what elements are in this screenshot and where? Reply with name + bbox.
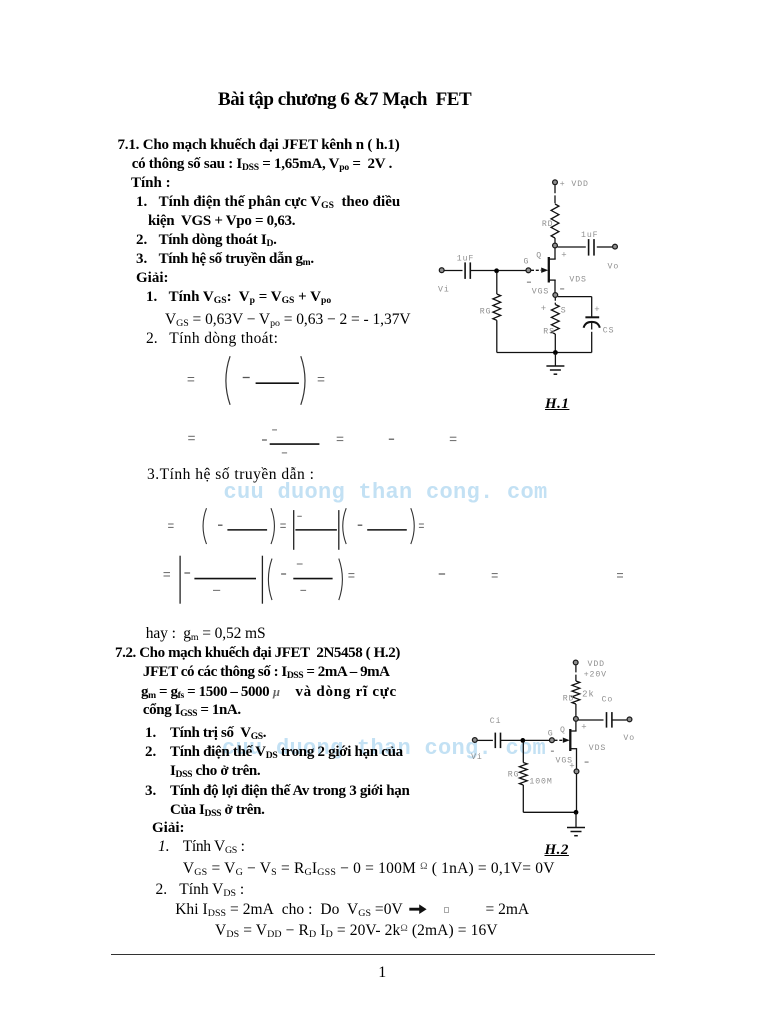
capacitor 1uF output H1 xyxy=(581,231,598,256)
label VDS H2 xyxy=(589,744,606,753)
bottom wire H1 xyxy=(497,352,592,354)
watermark 1 xyxy=(224,482,548,504)
svg-text:VGS: VGS xyxy=(532,288,549,297)
svg-text:RD: RD xyxy=(563,695,575,704)
svg-text:+ VDD: + VDD xyxy=(560,180,589,189)
watermark 2 xyxy=(222,738,546,760)
wire Co to Vo H2 xyxy=(612,719,627,721)
wire RD to drain node xyxy=(554,238,556,243)
svg-text:VDD: VDD xyxy=(588,660,605,669)
svg-text:Co: Co xyxy=(602,696,614,705)
caption H.1 xyxy=(545,397,569,412)
svg-text:RG: RG xyxy=(508,771,520,780)
capacitor CS H1 (polarized) xyxy=(584,305,615,352)
svg-text:S: S xyxy=(561,307,567,316)
svg-text:2k: 2k xyxy=(582,690,595,700)
equation gm row 1 xyxy=(168,508,424,550)
label VDD +20V H2 xyxy=(584,660,607,680)
minus below gate H1 xyxy=(527,281,531,283)
paragraph 7.1 xyxy=(118,138,400,153)
wire VDD to RD xyxy=(554,185,556,204)
wire source node to CS xyxy=(558,297,592,317)
label +VDD H1 xyxy=(560,180,589,189)
resistor RS H1 xyxy=(541,298,567,353)
wire VDD to RD H2 xyxy=(575,665,577,681)
empty box glyph xyxy=(444,907,449,913)
svg-text:VDS: VDS xyxy=(589,744,606,753)
junction node input H2 xyxy=(520,738,525,743)
equation gm row 2 xyxy=(164,556,624,604)
source node H1 xyxy=(553,293,558,298)
capacitor Co H2 xyxy=(602,696,614,728)
wire Vi to Ci xyxy=(477,739,493,741)
svg-text:Q: Q xyxy=(536,252,542,261)
plus sign drain H1 xyxy=(561,251,567,261)
svg-text:Ci: Ci xyxy=(490,716,502,726)
svg-text:+: + xyxy=(541,304,547,314)
bottom junction dot H2 xyxy=(574,810,579,815)
svg-text:CS: CS xyxy=(603,327,615,336)
wire junction to gate xyxy=(499,270,526,272)
wire Ci to junction H2 xyxy=(501,739,521,741)
page number xyxy=(378,965,386,981)
transistor Q H1 (JFET) xyxy=(524,248,556,293)
svg-text:G: G xyxy=(548,729,554,738)
Vo terminal H2 xyxy=(623,717,635,743)
svg-text:1uF: 1uF xyxy=(457,255,474,264)
wire input cap to junction xyxy=(470,270,494,272)
wire drain node to Co xyxy=(578,719,603,721)
label VGS H1 xyxy=(532,288,549,297)
VDD terminal H1 xyxy=(553,180,558,185)
minus below gate H2 xyxy=(551,750,554,752)
resistor RD H2 xyxy=(563,681,595,704)
svg-text:1uF: 1uF xyxy=(581,231,598,240)
resistor RG H1 xyxy=(480,272,501,353)
svg-text:Vi: Vi xyxy=(438,285,450,295)
plus near source H2 xyxy=(569,762,575,772)
wire junction to gate H2 xyxy=(525,739,550,741)
transistor Q H2 (JFET) xyxy=(548,721,577,769)
equation ID row 1 xyxy=(188,356,325,405)
minus right of source H2 xyxy=(585,761,589,763)
gate terminal H2 xyxy=(550,738,555,743)
resistor RD H1 xyxy=(542,204,559,238)
minus right of source H1 xyxy=(560,288,564,290)
svg-text:VDS: VDS xyxy=(569,276,586,285)
svg-text:+: + xyxy=(561,251,567,261)
plus sign drain H2 xyxy=(581,723,587,733)
label VGS H2 xyxy=(556,757,573,766)
svg-text:Vo: Vo xyxy=(623,734,635,743)
input terminal Vi H1 xyxy=(438,268,450,295)
bottom wire H2 xyxy=(523,811,576,813)
svg-text:+: + xyxy=(581,723,587,733)
drain node H1 xyxy=(553,243,558,248)
paragraph 7.2 xyxy=(115,646,400,661)
capacitor 1uF input H1 xyxy=(457,255,474,279)
label VDS H1 xyxy=(569,276,586,285)
bottom junction dot H1 xyxy=(553,350,558,355)
svg-text:RS: RS xyxy=(543,328,555,337)
svg-text:+: + xyxy=(594,305,600,315)
capacitor Ci H2 xyxy=(490,716,502,748)
svg-text:100M: 100M xyxy=(529,778,552,787)
wire output cap to Vo xyxy=(597,246,613,248)
drain node H2 xyxy=(574,717,579,722)
Vo terminal H1 xyxy=(608,244,620,271)
gate terminal H1 xyxy=(526,268,531,273)
source node H2 xyxy=(574,769,579,774)
resistor RG H2 xyxy=(508,742,553,812)
wire RD to drain node H2 xyxy=(575,704,577,716)
title xyxy=(218,90,471,109)
footer rule xyxy=(111,954,655,955)
VDD terminal H2 xyxy=(573,660,578,665)
svg-text:RD: RD xyxy=(542,220,554,229)
svg-text:G: G xyxy=(524,258,530,267)
caption H.2 xyxy=(545,843,569,858)
svg-text:+20V: +20V xyxy=(584,671,607,680)
wire drain node to output cap xyxy=(558,246,586,248)
svg-text:Vo: Vo xyxy=(608,262,620,271)
equation ID row 2 xyxy=(188,430,456,453)
svg-text:RG: RG xyxy=(480,307,492,316)
wire Vi to input cap xyxy=(444,270,462,272)
ground H1 xyxy=(546,353,564,375)
svg-text:Q: Q xyxy=(560,726,566,735)
wire source node down H2 xyxy=(576,774,578,812)
junction node input H1 xyxy=(494,268,499,273)
ground H2 xyxy=(567,812,585,835)
svg-text:Vi: Vi xyxy=(471,752,483,762)
input terminal Vi H2 xyxy=(471,738,483,763)
